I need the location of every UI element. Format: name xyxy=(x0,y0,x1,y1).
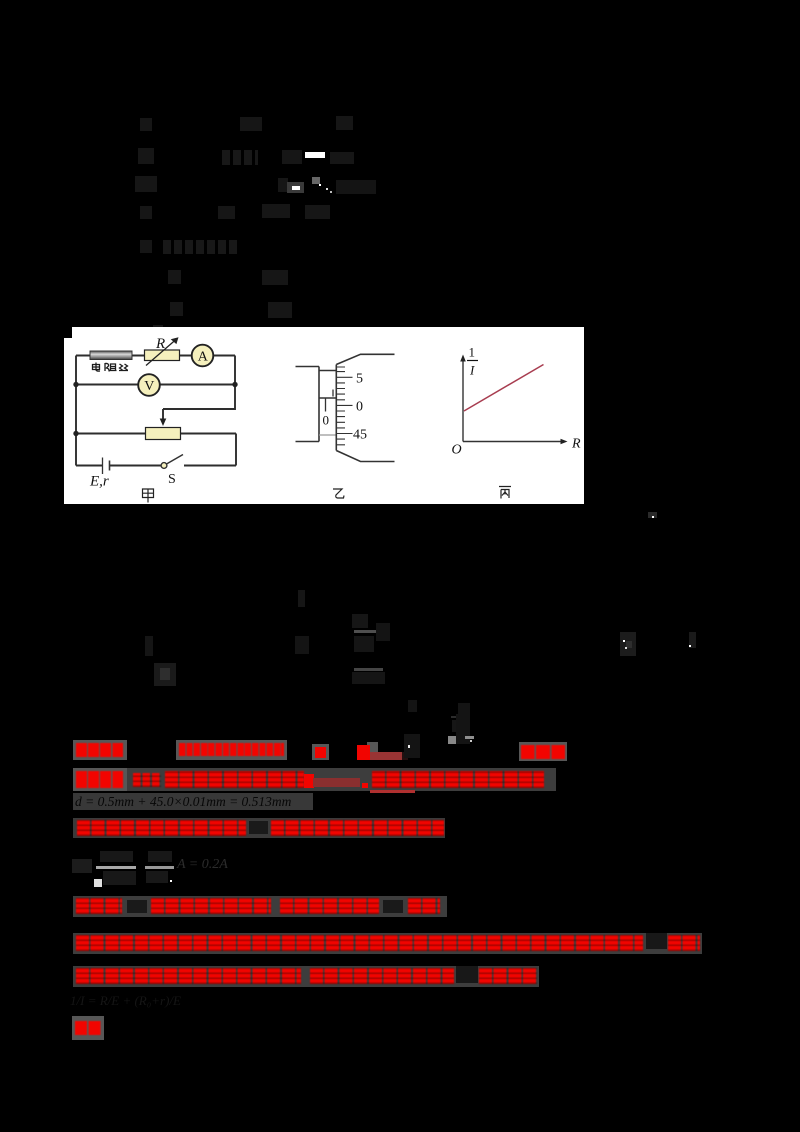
wire top xyxy=(76,355,235,357)
black notch top-left xyxy=(64,327,72,338)
row1: answer char xyxy=(312,744,329,760)
wire bottom xyxy=(76,465,236,467)
node A (left voltmeter junction) xyxy=(73,382,78,387)
row2: 【解析】（1）... xyxy=(73,768,556,791)
row6: 电流表...量程太大... xyxy=(73,896,447,917)
micrometer (乙) xyxy=(296,367,337,442)
row7: 电压表...滑动变阻器... xyxy=(73,933,702,954)
row1: answer char + blank bar xyxy=(367,742,378,752)
voltmeter V xyxy=(138,374,160,396)
svg-text:E,r: E,r xyxy=(89,474,109,490)
row1: 不需要 xyxy=(519,742,567,761)
svg-text:I: I xyxy=(469,363,475,378)
resistor R (rheostat) xyxy=(145,350,180,361)
ammeter A xyxy=(192,345,214,367)
node B (right voltmeter junction) xyxy=(232,382,237,387)
wire right vertical lower xyxy=(235,434,237,466)
svg-text:45: 45 xyxy=(353,428,367,443)
wire voltmeter row xyxy=(76,384,235,386)
svg-text:V: V xyxy=(144,379,154,394)
label 丙 xyxy=(499,487,511,499)
slider arrowhead xyxy=(160,419,167,427)
row1: 【答案】 xyxy=(73,740,127,760)
row1: faint fraction + gray square xyxy=(448,736,456,744)
potentiometer (sliding rheostat) xyxy=(146,428,181,440)
bright answer blank xyxy=(305,152,325,158)
wire right vertical upper xyxy=(163,356,235,410)
row10: 可得 xyxy=(72,1016,104,1040)
graph (丙) xyxy=(463,358,564,442)
svg-text:O: O xyxy=(452,443,462,458)
svg-text:R: R xyxy=(571,437,581,452)
node C (left potentiometer junction) xyxy=(73,431,78,436)
wire slider arrow stem xyxy=(162,409,164,420)
frame lines xyxy=(296,367,320,442)
switch S xyxy=(161,463,167,469)
thimble xyxy=(335,365,337,451)
label 电阻丝 xyxy=(93,363,129,372)
wire potentiometer row xyxy=(76,433,236,435)
label 甲 xyxy=(143,489,154,503)
row8: （3）... xyxy=(73,966,539,987)
svg-text:1: 1 xyxy=(469,345,476,360)
y axis xyxy=(462,358,464,442)
svg-text:5: 5 xyxy=(356,372,363,387)
faint problem text rows (top) xyxy=(140,118,152,131)
label 乙 xyxy=(333,489,344,498)
row9: faint formula 1/I=... xyxy=(70,993,181,1009)
sleeve xyxy=(318,367,320,442)
svg-text:A: A xyxy=(198,350,209,365)
row5: faint fraction formula xyxy=(72,859,92,873)
svg-text:0: 0 xyxy=(323,413,330,428)
battery E,r xyxy=(102,458,104,475)
wire left vertical xyxy=(75,356,77,466)
svg-text:0: 0 xyxy=(356,400,363,415)
red line xyxy=(464,365,544,412)
FIGURE (white panel) xyxy=(64,327,584,504)
svg-text:R: R xyxy=(155,336,165,352)
svg-text:S: S xyxy=(168,472,176,487)
main scale ticks xyxy=(325,398,327,412)
faint mid formulas xyxy=(648,512,657,518)
x axis xyxy=(463,441,564,443)
row1: answer digits xyxy=(176,740,287,760)
row4: （2）电阻丝的电阻为... xyxy=(73,818,445,838)
row3: faint formula d=0.5mm+... xyxy=(73,793,313,810)
